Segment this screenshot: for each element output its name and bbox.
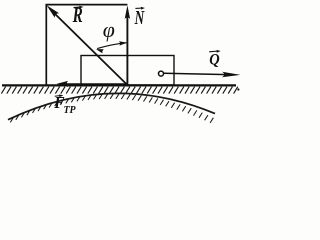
svg-text:N: N <box>134 6 145 28</box>
svg-text:Q: Q <box>209 52 220 69</box>
svg-text:TP: TP <box>64 105 77 117</box>
svg-text:φ: φ <box>103 17 115 42</box>
